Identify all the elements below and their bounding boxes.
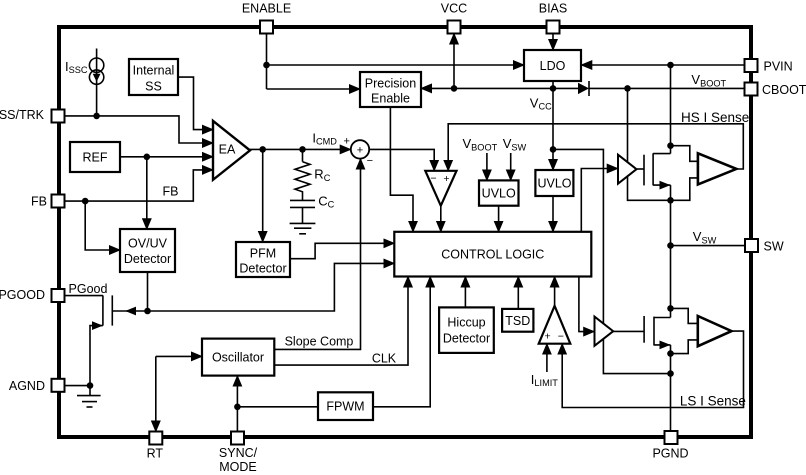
svg-text:AGND: AGND bbox=[9, 379, 45, 393]
svg-text:ICMD: ICMD bbox=[312, 130, 337, 146]
svg-text:CC: CC bbox=[318, 193, 334, 209]
svg-text:VCC: VCC bbox=[530, 95, 552, 111]
svg-text:HS I Sense: HS I Sense bbox=[681, 110, 749, 125]
svg-text:CONTROL LOGIC: CONTROL LOGIC bbox=[441, 248, 544, 262]
svg-text:Internal: Internal bbox=[133, 64, 175, 78]
svg-text:LS I Sense: LS I Sense bbox=[680, 393, 746, 408]
svg-text:FB: FB bbox=[31, 195, 47, 209]
svg-text:VBOOT: VBOOT bbox=[691, 72, 726, 88]
svg-text:−: − bbox=[367, 155, 373, 167]
svg-text:+: + bbox=[443, 173, 449, 185]
svg-text:SYNC/: SYNC/ bbox=[219, 446, 258, 460]
svg-text:SW: SW bbox=[764, 239, 784, 253]
svg-text:Precision: Precision bbox=[365, 77, 416, 91]
svg-text:ILIMIT: ILIMIT bbox=[531, 372, 558, 388]
svg-text:−: − bbox=[558, 331, 564, 343]
svg-text:SS/TRK: SS/TRK bbox=[0, 108, 45, 122]
svg-text:+: + bbox=[343, 136, 349, 148]
svg-text:Detector: Detector bbox=[124, 252, 171, 266]
svg-text:LDO: LDO bbox=[540, 59, 566, 73]
svg-text:ENABLE: ENABLE bbox=[242, 2, 291, 16]
svg-text:Oscillator: Oscillator bbox=[212, 351, 264, 365]
svg-text:VSW: VSW bbox=[503, 136, 527, 152]
svg-text:Slope Comp: Slope Comp bbox=[285, 334, 354, 348]
svg-text:Detector: Detector bbox=[239, 262, 286, 276]
svg-text:+: + bbox=[357, 144, 363, 156]
svg-text:TSD: TSD bbox=[505, 314, 530, 328]
svg-text:REF: REF bbox=[83, 151, 108, 165]
svg-text:VBOOT: VBOOT bbox=[463, 136, 498, 152]
svg-text:PFM: PFM bbox=[250, 247, 276, 261]
svg-text:−: − bbox=[430, 173, 436, 185]
svg-text:FB: FB bbox=[163, 185, 179, 199]
svg-text:PGOOD: PGOOD bbox=[0, 288, 45, 302]
svg-text:BIAS: BIAS bbox=[539, 2, 568, 16]
svg-text:VCC: VCC bbox=[441, 2, 467, 16]
svg-text:RT: RT bbox=[147, 447, 164, 461]
svg-text:MODE: MODE bbox=[219, 460, 257, 474]
svg-text:FPWM: FPWM bbox=[326, 400, 364, 414]
svg-text:PGood: PGood bbox=[69, 282, 108, 296]
svg-text:Enable: Enable bbox=[371, 92, 410, 106]
svg-text:EA: EA bbox=[219, 143, 236, 157]
svg-text:Hiccup: Hiccup bbox=[447, 316, 485, 330]
svg-text:CBOOT: CBOOT bbox=[762, 83, 806, 97]
svg-text:UVLO: UVLO bbox=[482, 187, 516, 201]
svg-text:PVIN: PVIN bbox=[764, 59, 793, 73]
svg-text:OV/UV: OV/UV bbox=[128, 237, 168, 251]
svg-text:ISSC: ISSC bbox=[65, 59, 88, 75]
svg-text:UVLO: UVLO bbox=[537, 177, 571, 191]
svg-text:SS: SS bbox=[145, 80, 162, 94]
svg-text:+: + bbox=[545, 331, 551, 343]
svg-text:VSW: VSW bbox=[693, 229, 717, 245]
svg-text:PGND: PGND bbox=[652, 446, 688, 460]
svg-text:RC: RC bbox=[314, 167, 330, 183]
svg-text:Detector: Detector bbox=[443, 332, 490, 346]
svg-text:CLK: CLK bbox=[372, 352, 397, 366]
